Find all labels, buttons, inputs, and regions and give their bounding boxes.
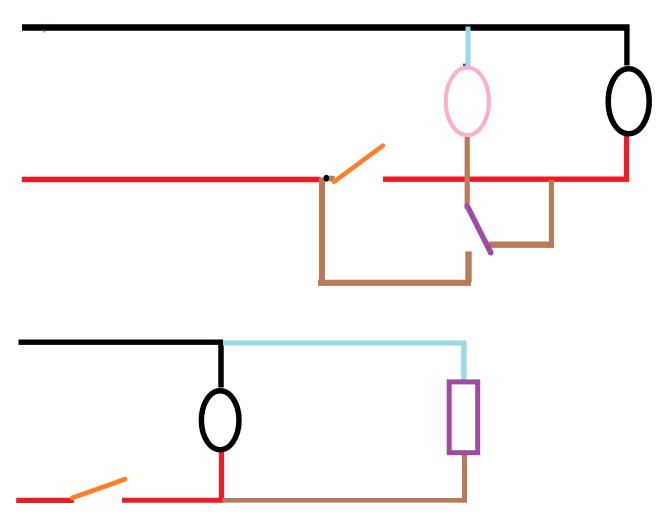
node speck: [463, 64, 465, 66]
wire bottom black bus: [19, 340, 224, 345]
wire brown mid horizontal: [489, 242, 554, 248]
wire brown center vertical: [465, 137, 470, 204]
wire bottom red left segment: [16, 498, 74, 503]
wire cyan top drop: [466, 27, 471, 66]
node brown nub: [329, 176, 335, 182]
wire brown loop bottom horizontal: [318, 280, 471, 286]
wire brown right branch vertical: [549, 180, 554, 248]
wire brown left loop vertical: [319, 178, 325, 284]
node red speck: [465, 207, 467, 209]
switch S3 blade: [73, 479, 126, 498]
lamp L1: [608, 69, 649, 134]
wire bottom red right segment: [122, 498, 224, 503]
wire bottom brown vertical: [462, 454, 467, 500]
wire bottom black drop: [218, 342, 224, 388]
wire cyan bottom bus: [223, 340, 466, 345]
lamp L2: [446, 68, 489, 136]
node A junction dot: [324, 175, 330, 182]
wire red right vertical: [624, 135, 629, 182]
wire bottom brown return horizontal: [223, 498, 468, 503]
node orange speck: [43, 31, 45, 33]
wire bottom red vertical: [219, 451, 224, 503]
wire brown stub vertical: [465, 251, 471, 282]
lamp L3: [201, 391, 239, 450]
wire top black bus: [22, 24, 630, 30]
switch S1 blade: [334, 146, 383, 182]
resistor R1: [449, 382, 478, 453]
switch S2 blade: [467, 206, 491, 253]
wire black right drop: [624, 25, 629, 66]
wire red mid-rail left segment: [22, 177, 321, 182]
wire cyan bottom drop: [461, 343, 466, 380]
wire red mid-rail right segment: [383, 176, 629, 181]
